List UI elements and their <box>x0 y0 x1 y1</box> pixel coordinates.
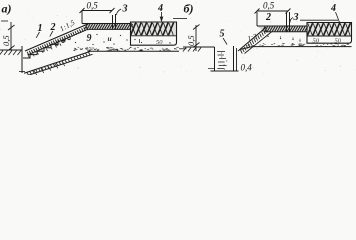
hatch of lower slope band, diagram a <box>27 73 29 76</box>
svg-text:4: 4 <box>330 3 336 14</box>
extra speckle dashes near base line, diagram a <box>107 50 110 52</box>
svg-text:9: 9 <box>87 33 92 44</box>
upper slope line 1:1.5, diagram a <box>25 24 89 52</box>
hatch of road band, diagram b <box>257 26 307 32</box>
svg-text:50: 50 <box>313 38 320 45</box>
soil speckle row above base line, diagram a <box>106 47 108 49</box>
edge vertical line under dimension, diagram a <box>81 11 83 24</box>
base ground line under embankment, diagram a <box>90 50 179 52</box>
drainage trench, diagram b <box>214 47 216 71</box>
excavation left wall vertical line, diagram a <box>21 46 23 73</box>
inner line of pavement box, diagram b <box>307 35 352 37</box>
svg-text:0,5: 0,5 <box>263 1 275 11</box>
hatch of upper slope band, diagram a <box>27 52 29 56</box>
vertical dimension 0,5 left of diagram b <box>195 25 197 51</box>
svg-text:2: 2 <box>265 12 271 23</box>
hatch of slope band, diagram b <box>241 50 243 54</box>
ground hatch below lower slope, diagram a <box>34 71 37 76</box>
upper slope band lower line, diagram a <box>28 30 88 55</box>
svg-text:50: 50 <box>156 39 163 46</box>
lower slope band line 1, diagram a <box>24 52 90 74</box>
double vertical joint line, diagram a <box>112 15 114 30</box>
hatch of pavement box, diagram b <box>307 23 352 37</box>
natural ground line left, diagram a <box>0 49 22 51</box>
top dimension 0,5 bracket, diagram b <box>257 10 288 12</box>
svg-text:0,5: 0,5 <box>186 35 196 46</box>
hatch of pavement box, diagram a <box>131 22 177 36</box>
ground line left, diagram b <box>183 46 215 48</box>
sand fill dashes in trench, diagram b <box>217 51 225 53</box>
old road surface line, diagram b <box>300 19 338 21</box>
hatch of road band, diagram a <box>82 24 131 30</box>
existing pavement box, diagram b <box>307 23 352 44</box>
scan noise dots <box>297 60 298 61</box>
round marks on slope band, diagram a <box>56 43 59 46</box>
soil speckle row above base line, diagram b <box>325 45 327 47</box>
svg-text:0,4: 0,4 <box>241 63 253 73</box>
slope band line 2, diagram b <box>245 32 272 54</box>
existing pavement box, diagram a <box>131 22 177 45</box>
svg-text:u: u <box>108 34 112 43</box>
svg-text:5: 5 <box>220 29 225 40</box>
svg-text:3: 3 <box>122 4 128 15</box>
hatch of bench zone, diagram a <box>28 56 29 58</box>
slope band line 1, diagram b <box>238 27 266 51</box>
svg-text:0,5: 0,5 <box>1 35 11 46</box>
svg-text:0,5: 0,5 <box>87 1 99 11</box>
svg-text:а): а) <box>2 2 12 16</box>
inner line of pavement box, diagram a <box>131 35 177 37</box>
benching steps zigzag, diagram a <box>23 38 65 58</box>
top dimension 0,5 bracket, diagram a <box>82 10 112 12</box>
scattered soil dots, diagram a <box>96 34 97 35</box>
scattered soil dots, diagram b <box>267 36 268 37</box>
road structural band, diagram b <box>257 25 307 27</box>
svg-text:б): б) <box>184 2 194 16</box>
surface continuation dash right of box, diagram a <box>173 18 187 20</box>
lower slope band line 2, diagram a <box>28 54 93 75</box>
svg-text:4: 4 <box>157 3 163 14</box>
edge vertical line under dimension, diagram b <box>256 12 258 26</box>
road structural band, diagram a <box>82 23 131 25</box>
base ground line under embankment, diagram b <box>240 47 352 50</box>
svg-text:1: 1 <box>38 23 43 34</box>
double vertical joint line, diagram b <box>286 13 288 32</box>
vertical dimension 0,5 left of diagram a <box>10 22 12 50</box>
